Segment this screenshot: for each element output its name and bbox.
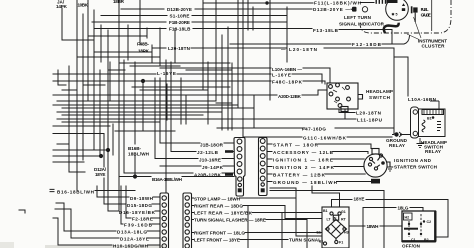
svg-text:—: — xyxy=(281,47,286,52)
svg-text:D12B-20YE —: D12B-20YE — xyxy=(313,7,350,12)
gauge pins hatch xyxy=(376,0,387,4)
svg-text:F48C-18PK: F48C-18PK xyxy=(272,79,303,84)
wire TURN SIGNAL FLASHER-18RE xyxy=(192,220,308,248)
off/on pin dots xyxy=(408,220,425,235)
svg-text:A20D-12BK: A20D-12BK xyxy=(278,94,302,99)
gauge bezel black xyxy=(387,0,398,3)
off/on thick border xyxy=(402,211,436,242)
wire L20-18TN top xyxy=(152,48,394,134)
gauge square marker xyxy=(402,8,405,11)
svg-text:B1: B1 xyxy=(427,117,432,121)
turn signal switch S2 xyxy=(322,207,349,248)
svg-text:LEFT TURN: LEFT TURN xyxy=(344,15,372,20)
svg-text:L-16YE: L-16YE xyxy=(157,71,176,76)
svg-text:L10A-16BN —: L10A-16BN — xyxy=(272,67,302,72)
svg-text:LEFT REAR — 18YE/BK: LEFT REAR — 18YE/BK xyxy=(194,210,253,215)
svg-text:D12A-18YE: D12A-18YE xyxy=(120,237,149,242)
svg-text:C2: C2 xyxy=(427,220,432,224)
svg-text:OFF/ON: OFF/ON xyxy=(402,243,421,248)
wire G1 loop xyxy=(312,186,340,207)
wire STOP LAMP-18WH xyxy=(192,197,297,199)
svg-text:F1B-20RE: F1B-20RE xyxy=(169,20,190,25)
svg-text:18YE: 18YE xyxy=(95,172,106,177)
wire J2-12LB xyxy=(171,151,234,153)
wire A20D-12BK xyxy=(53,90,327,95)
pin plug J2 xyxy=(225,150,233,153)
wire D13A-18LG xyxy=(56,203,160,231)
headlamp switch relay K1 xyxy=(411,107,446,138)
wire ACCESSORY-12LB xyxy=(268,152,368,154)
wire D12A-18YE xyxy=(55,209,160,238)
svg-text:BATTERY — 12BK: BATTERY — 12BK xyxy=(273,172,326,177)
svg-text:RELAY: RELAY xyxy=(389,143,405,148)
wire F12-18DB xyxy=(230,36,410,44)
svg-text:18WH: 18WH xyxy=(367,224,380,229)
svg-text:STOP LAMP — 18WH: STOP LAMP — 18WH xyxy=(194,196,241,201)
bottom connector strip R xyxy=(183,193,192,248)
svg-text:18YE: 18YE xyxy=(354,196,365,201)
svg-text:J1B-18OR: J1B-18OR xyxy=(200,142,224,147)
wire G11C-16WH/BK xyxy=(243,136,392,138)
svg-text:SWITCH: SWITCH xyxy=(369,95,391,100)
svg-text:J10-16RE: J10-16RE xyxy=(199,157,221,162)
svg-text:SIGNAL INDICATOR: SIGNAL INDICATOR xyxy=(339,22,385,27)
svg-text:CLUSTER: CLUSTER xyxy=(422,44,446,49)
ground symbol at ground relay xyxy=(417,138,424,148)
svg-text:F1: F1 xyxy=(339,241,343,245)
wire stub step bottom left xyxy=(19,210,25,213)
svg-text:✱ 5: ✱ 5 xyxy=(392,13,398,17)
ignition connector strip A xyxy=(234,138,245,197)
wire L11-18PU xyxy=(57,109,356,119)
wire L10A label to relay B2 xyxy=(430,101,439,109)
svg-text:G11C-16WH/BK: G11C-16WH/BK xyxy=(303,136,347,141)
wire F47-16DG xyxy=(217,127,394,129)
svg-text:D9-18WH: D9-18WH xyxy=(130,196,154,201)
svg-text:RELAY: RELAY xyxy=(425,149,441,154)
wire RIGHT FRONT-18LG xyxy=(192,232,323,234)
svg-text:B1: B1 xyxy=(323,209,328,213)
svg-text:D15-18DG: D15-18DG xyxy=(127,203,152,208)
ignition connector strip B xyxy=(259,138,268,196)
wire RIGHT REAR-18DG xyxy=(192,206,323,248)
wire L10A-16BN drop to relay xyxy=(394,57,408,96)
svg-text:18BL/WH: 18BL/WH xyxy=(128,152,150,157)
svg-text:J9-14PK: J9-14PK xyxy=(202,165,224,170)
svg-text:RT: RT xyxy=(341,218,347,222)
wire F39-16DB xyxy=(121,186,160,224)
wire feed to 18WH vertical xyxy=(270,191,384,248)
svg-text:10BK: 10BK xyxy=(78,2,89,7)
svg-text:F39-16DB: F39-16DB xyxy=(124,223,153,228)
wire B16A-18BL/WH xyxy=(119,176,234,178)
headlamp switch U2 xyxy=(327,83,363,112)
svg-text:L20-18TN: L20-18TN xyxy=(168,46,191,51)
bottom connector strip L xyxy=(160,193,169,248)
svg-text:H10-16DG/WH: H10-16DG/WH xyxy=(113,244,149,248)
junction dot left 1 xyxy=(106,148,110,152)
instrument cluster outline xyxy=(360,0,451,33)
svg-text:14PK: 14PK xyxy=(56,4,68,9)
svg-text:LEFT FRONT — 18YE: LEFT FRONT — 18YE xyxy=(194,238,240,243)
svg-text:18PK: 18PK xyxy=(138,49,150,54)
svg-text:A20B-12BK: A20B-12BK xyxy=(194,172,222,177)
wire F11(L-18BK)/WH xyxy=(203,2,374,5)
wire L10A-16BN xyxy=(160,68,330,83)
wire J9-14PK xyxy=(160,165,234,167)
svg-text:HEADLAMP: HEADLAMP xyxy=(366,89,393,94)
svg-text:TURN SIGNAL: TURN SIGNAL xyxy=(289,238,321,243)
svg-text:D13A-18LG: D13A-18LG xyxy=(117,230,147,235)
wire IGNITION2-14PK xyxy=(268,166,364,168)
wire J1B-18OR xyxy=(160,142,234,144)
svg-text:18BR: 18BR xyxy=(113,0,125,4)
fuel gauge connector xyxy=(411,6,418,22)
svg-text:GROUND — 18BL/WH: GROUND — 18BL/WH xyxy=(273,180,338,185)
left turn signal indicator connector blob xyxy=(352,7,357,12)
svg-text:RIGHT FRONT — 18LG: RIGHT FRONT — 18LG xyxy=(194,231,245,236)
svg-text:E1: E1 xyxy=(317,231,321,235)
svg-text:F13-18LB: F13-18LB xyxy=(169,26,191,31)
wire chain to turn signal C1 xyxy=(270,188,322,236)
wire B16-18BL/WH xyxy=(50,189,135,191)
svg-text:L11-18PU: L11-18PU xyxy=(357,117,383,122)
svg-text:START — 18OR: START — 18OR xyxy=(273,142,319,147)
ignition switch filled pin xyxy=(381,161,385,165)
wire D9-18WH xyxy=(97,186,160,197)
wire D12B-20YE xyxy=(121,8,353,10)
wire F13 drop xyxy=(391,30,393,45)
wire START-18OR xyxy=(268,144,371,149)
svg-text:F2-18RE: F2-18RE xyxy=(132,217,153,222)
svg-text:G1: G1 xyxy=(341,210,346,214)
wire 18WH xyxy=(349,225,402,227)
svg-text:F11(L-18BK)/WH: F11(L-18BK)/WH xyxy=(314,1,362,6)
wire F2-18RE xyxy=(126,186,160,218)
svg-text:GAUGE: GAUGE xyxy=(421,12,431,17)
svg-text:C1: C1 xyxy=(411,238,416,242)
svg-text:TURN SIGNAL FLASHER — 18RE: TURN SIGNAL FLASHER — 18RE xyxy=(194,218,266,223)
svg-text:H3: H3 xyxy=(344,231,349,235)
svg-text:F12-18DB: F12-18DB xyxy=(352,42,382,47)
junction dot F48C xyxy=(141,79,145,83)
wire D15-18DG xyxy=(104,203,160,205)
wire BATTERY-12BK xyxy=(268,173,365,175)
wire L-16YE xyxy=(53,74,322,83)
svg-text:IGNITION AND: IGNITION AND xyxy=(394,158,432,163)
wire 18YE B1 to off/on xyxy=(332,200,449,238)
svg-text:F48B-: F48B- xyxy=(137,42,149,47)
svg-text:B2: B2 xyxy=(424,238,429,242)
svg-text:L10A-16BN: L10A-16BN xyxy=(408,97,437,102)
left turn signal indicator bulb xyxy=(362,7,367,12)
headlamp switch relay hatch xyxy=(424,110,442,115)
wire 18LG xyxy=(363,208,423,248)
headlamp switch inner marks xyxy=(333,87,345,103)
wire LEFT FRONT-18YE xyxy=(192,239,289,241)
svg-text:F13-18LB: F13-18LB xyxy=(313,28,339,33)
gauge dial U1 xyxy=(386,0,409,20)
svg-text:L20-18TN: L20-18TN xyxy=(356,111,382,116)
wire harness vertical bundle xyxy=(58,0,287,211)
wire vertical right of fuel gauge xyxy=(431,0,433,31)
svg-text:D12B-20YE: D12B-20YE xyxy=(167,7,192,12)
svg-text:L-16YE: L-16YE xyxy=(272,73,291,78)
wire D16-18YE/BK xyxy=(108,186,160,211)
svg-text:D12A/: D12A/ xyxy=(94,167,107,172)
svg-text:ACCESSORY — 12LB: ACCESSORY — 12LB xyxy=(273,150,334,155)
svg-text:B16-18BL/WH: B16-18BL/WH xyxy=(57,189,95,194)
ignition switch bottom tab xyxy=(371,179,380,184)
off/on switch S3 xyxy=(402,211,436,242)
ground symbol at ignition switch xyxy=(387,167,393,171)
wire LEFT REAR-18YE/BK xyxy=(192,213,323,248)
svg-text:S1-10RE: S1-10RE xyxy=(170,13,190,18)
relay junction dot xyxy=(432,116,435,119)
ignition and starter switch S1 xyxy=(364,149,390,178)
cluster wire boot xyxy=(384,23,399,33)
svg-text:F47-16DG: F47-16DG xyxy=(302,127,326,132)
svg-text:RIGHT REAR — 18DG: RIGHT REAR — 18DG xyxy=(194,203,243,208)
junction dot left 2 xyxy=(99,154,103,158)
svg-text:B16B-: B16B- xyxy=(128,146,141,151)
svg-text:L20-18TN: L20-18TN xyxy=(289,47,318,52)
wire harness horizontal bundle xyxy=(53,36,254,162)
wire H10-16DG/WH xyxy=(53,218,160,245)
wire F1B-20RE xyxy=(92,21,287,23)
svg-text:IGNITION 1 — 16RE: IGNITION 1 — 16RE xyxy=(273,157,333,162)
junction dot top xyxy=(265,1,268,4)
wire A20B-12BK xyxy=(124,172,234,174)
gauge triangle marker xyxy=(402,3,405,6)
svg-text:STARTER SWITCH: STARTER SWITCH xyxy=(394,165,438,170)
svg-text:H2: H2 xyxy=(405,216,410,220)
wire J10-16RE xyxy=(155,158,234,160)
wire IGNITION1-16RE xyxy=(268,158,364,160)
wire GROUND-18BL/WH xyxy=(268,181,371,183)
svg-text:N: N xyxy=(334,217,337,221)
pin plug A20B xyxy=(225,173,233,176)
wire F48C-18PK xyxy=(53,81,325,84)
svg-text:D16-18YE/BK: D16-18YE/BK xyxy=(119,210,156,215)
svg-text:J2-12LB: J2-12LB xyxy=(197,150,219,155)
svg-text:18LG: 18LG xyxy=(398,205,409,210)
junction dot B16A xyxy=(133,174,137,178)
wire L20-18TN at headlamp switch xyxy=(339,109,355,113)
wire F13-18LB xyxy=(94,29,392,30)
wire S1-10RE xyxy=(101,15,287,17)
instrument cluster pointer lines xyxy=(407,17,421,40)
svg-text:B16A-18BL/WH: B16A-18BL/WH xyxy=(152,177,183,182)
scan smudge bottom xyxy=(45,245,165,248)
ground relay symbol xyxy=(392,132,411,137)
